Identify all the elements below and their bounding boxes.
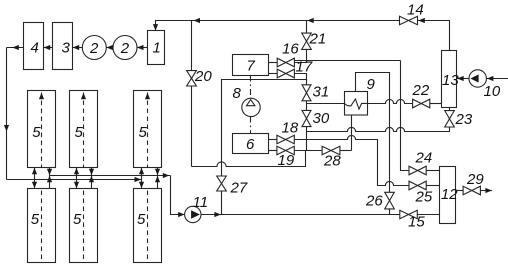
valve 16 [277, 40, 299, 67]
radiator 5 upper-mid [70, 91, 98, 168]
svg-text:14: 14 [407, 2, 424, 19]
wire bus2 supply header [7, 177, 142, 182]
valve 27 [217, 176, 248, 197]
pump 8 [233, 85, 261, 117]
riser B-right [89, 168, 94, 189]
wire rect7 to valve17 [269, 73, 278, 75]
wire pump2b to pump2a with arrow [106, 45, 113, 50]
wire top header line [153, 18, 450, 51]
wire header H1 from valve16 to drop x400.5 [294, 60, 400, 62]
wire valve21 riser [306, 21, 308, 61]
wire tank13 bottom to valve23 [449, 108, 451, 111]
svg-text:27: 27 [230, 180, 248, 197]
svg-text:4: 4 [31, 40, 39, 57]
tank 12 [440, 167, 459, 224]
wire tank12 to valve29 [456, 190, 464, 192]
wire 9 outlet to valve 22 with hops [368, 99, 413, 103]
pump 2a [82, 36, 106, 60]
valve 15 [400, 210, 426, 230]
svg-text:19: 19 [278, 152, 295, 169]
riser C-left [139, 168, 144, 189]
dashed unit centerline with pump 8 [250, 76, 252, 134]
wire 9 bottom stub to valve28 line [351, 115, 353, 151]
svg-text:23: 23 [455, 111, 473, 128]
valve 17 [277, 59, 313, 78]
wire pump2a to rect3 with arrow [73, 45, 83, 50]
svg-text:12: 12 [441, 186, 458, 203]
svg-text:3: 3 [62, 40, 71, 57]
wire pump11 outlet line to valve15 [201, 212, 400, 217]
apparatus 6 [233, 134, 269, 154]
svg-text:22: 22 [412, 82, 430, 99]
apparatus 7 [233, 55, 269, 76]
valve 19 [277, 146, 295, 169]
svg-text:5: 5 [75, 124, 84, 141]
svg-text:20: 20 [194, 68, 212, 85]
svg-text:5: 5 [32, 124, 41, 141]
valve 24 [409, 150, 432, 175]
svg-text:28: 28 [323, 153, 341, 170]
wire rect1 to pump2b with arrow [137, 45, 148, 50]
valve 25 [409, 181, 433, 205]
tank 13 [442, 51, 460, 108]
radiator 5 lower-mid [70, 189, 98, 263]
svg-text:30: 30 [313, 110, 330, 127]
svg-text:5: 5 [31, 211, 40, 228]
wire valve17 jog down to unit boundary [294, 74, 306, 85]
wire valve24 to tank12 [426, 170, 439, 172]
svg-text:18: 18 [282, 120, 299, 137]
svg-text:26: 26 [365, 193, 383, 210]
wire unit boundary top and left through valve 27 [222, 80, 307, 215]
valve 31 [302, 84, 329, 101]
riser A-left [32, 168, 37, 189]
pump 2b [113, 36, 137, 60]
svg-text:15: 15 [408, 214, 425, 231]
valve 23 [445, 111, 473, 128]
pump 11 [185, 194, 208, 223]
valve 14 [400, 2, 424, 25]
wire bypass loop over 9 to valve 26 [356, 73, 390, 193]
wire left vertical drop [4, 48, 9, 180]
svg-text:16: 16 [282, 40, 299, 57]
wire valve26 to pump line [389, 209, 391, 215]
wire rect4 to left drop with arrow [7, 45, 24, 50]
wire valve22 to tank13 [430, 103, 442, 105]
svg-text:5: 5 [137, 211, 146, 228]
svg-text:9: 9 [367, 76, 376, 93]
svg-text:5: 5 [73, 211, 82, 228]
riser A-right [47, 168, 52, 189]
svg-text:1: 1 [153, 40, 161, 57]
apparatus 1 [148, 31, 165, 65]
wire valve16 to junction [294, 61, 306, 63]
svg-text:21: 21 [309, 31, 327, 48]
valve 29 [463, 171, 484, 195]
wire valve29 outlet arrow [480, 188, 492, 193]
heat exchanger 9 [345, 76, 376, 115]
valve 28 [322, 146, 341, 169]
wire return line H2 y129.5 to valve 23 with hops [307, 127, 450, 132]
riser C-right [155, 168, 160, 189]
wire valve31 to valve30 [306, 101, 308, 111]
valve 18 [277, 120, 299, 144]
wire valve18 line to drop x377.5 and to valve 25 [294, 135, 409, 185]
wire valve19 to valve28 [294, 150, 322, 152]
wire rect6 to valve19 [269, 150, 277, 152]
wire valve28 up to 9 bottom [340, 150, 352, 152]
svg-text:6: 6 [246, 136, 255, 153]
svg-text:11: 11 [193, 194, 209, 211]
wire valve20 riser [191, 21, 193, 167]
valve 21 [302, 31, 326, 50]
valve 22 [412, 82, 430, 108]
wire valve20 line to center column (hop over valve27 line) [192, 151, 306, 167]
svg-text:10: 10 [484, 83, 501, 100]
wire valve25 to tank12 [426, 185, 439, 187]
wire rect6 to valve18 [269, 139, 277, 141]
svg-text:2: 2 [120, 40, 130, 57]
radiator 5 upper-right [134, 91, 162, 168]
wire bus1 return header [50, 173, 171, 178]
svg-text:24: 24 [415, 150, 433, 167]
radiator 5 upper-left [28, 91, 56, 168]
svg-text:7: 7 [247, 58, 256, 75]
wire drop to valve 24 [401, 61, 410, 171]
apparatus 3 [53, 23, 73, 70]
svg-text:8: 8 [233, 85, 242, 102]
wire bus1 to pump11 inlet [171, 176, 185, 218]
svg-text:25: 25 [415, 189, 433, 206]
wire rect7 to valve16 [269, 62, 278, 64]
svg-text:31: 31 [313, 84, 330, 101]
wire rect3 to rect4 with arrow [44, 45, 53, 50]
svg-text:5: 5 [139, 124, 148, 141]
svg-text:13: 13 [442, 72, 459, 89]
valve 20 [187, 68, 213, 86]
svg-text:2: 2 [89, 40, 99, 57]
riser B-left [74, 168, 79, 189]
radiator 5 lower-right [134, 189, 162, 263]
svg-text:29: 29 [466, 171, 484, 188]
wire heat exchanger feed line y103.5 [307, 103, 345, 105]
valve 30 [302, 110, 330, 127]
apparatus 4 [24, 23, 44, 70]
pump 10 [457, 70, 508, 100]
wire valve15 to tank12 [417, 214, 439, 216]
radiator 5 lower-left [28, 189, 56, 263]
valve 26 [365, 192, 394, 209]
wire valve30 down to valve20 line [306, 127, 308, 151]
